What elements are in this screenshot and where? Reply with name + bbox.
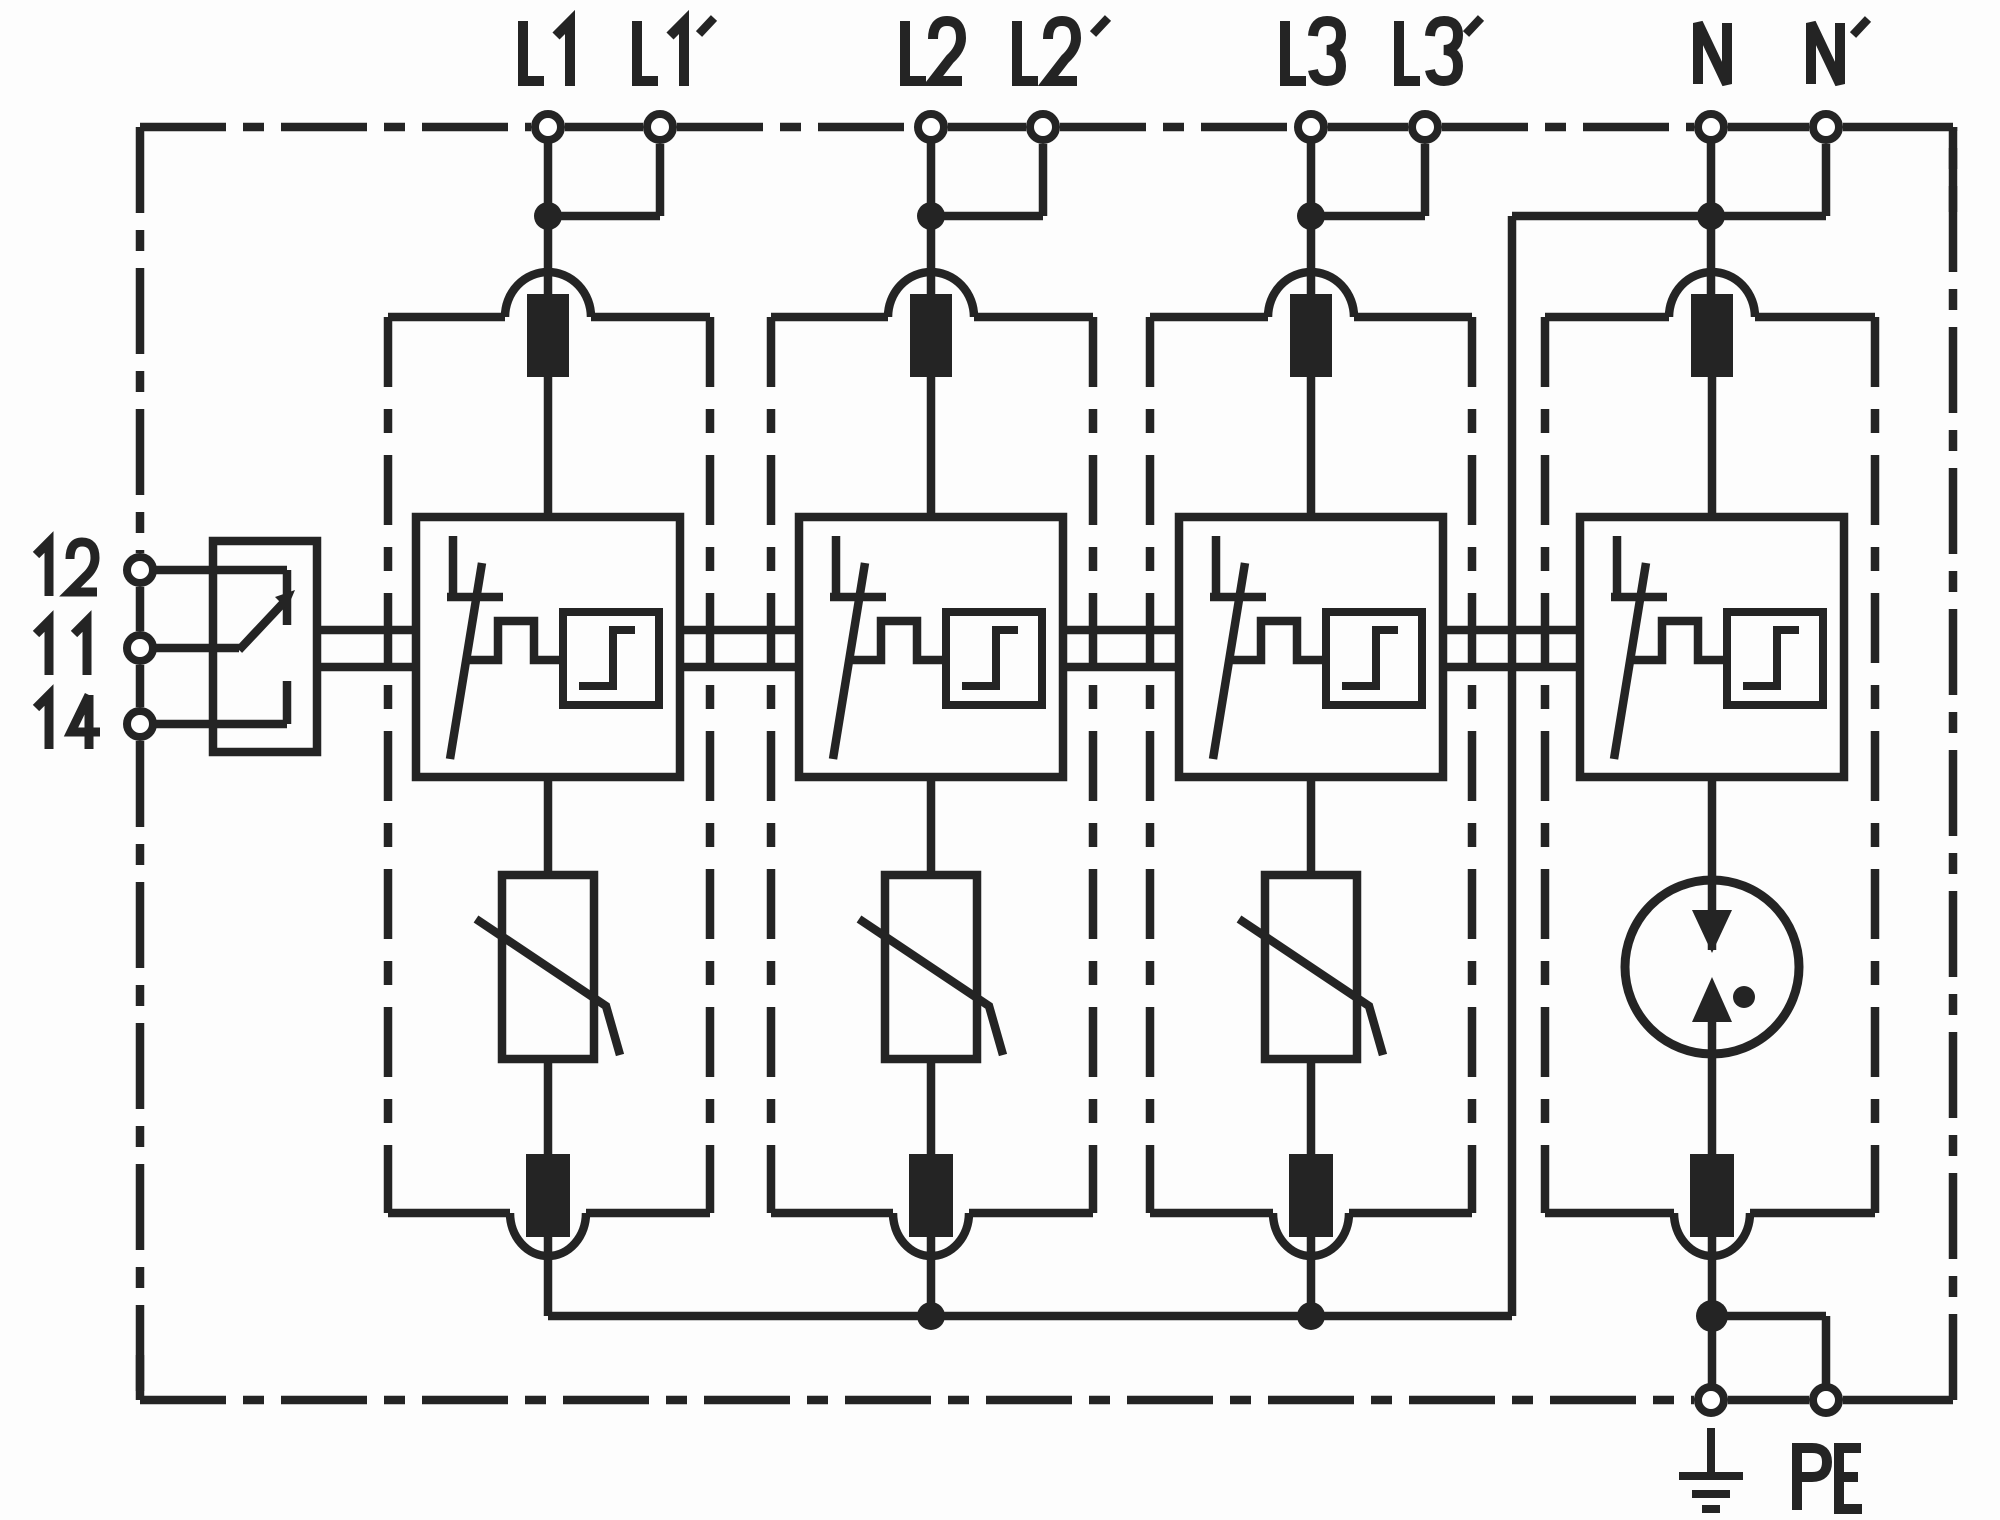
arrester F2 disconnect blade <box>833 563 865 759</box>
arrester F4 trigger pulse line <box>1629 621 1727 660</box>
ground symbol bar 2 <box>1692 1490 1730 1498</box>
module 1 bottom edge right segment <box>586 1209 710 1218</box>
module 3 boundary right dash-dot <box>1468 317 1477 1213</box>
wire L3' to junction node L3 <box>1311 212 1425 221</box>
wire terminal L1 down to junction <box>544 127 553 230</box>
junction dot node L3 <box>1297 202 1325 230</box>
wire terminal 12 to contact <box>140 566 287 575</box>
gas discharge tube G1 circle <box>1625 880 1799 1054</box>
label 11 first digit 1 <box>36 621 49 675</box>
wire varistor R2 to bottom contact <box>927 1059 936 1154</box>
arrester F4 trigger unit step symbol <box>1743 630 1799 686</box>
terminal L2 circle <box>918 114 944 140</box>
wire gas discharge tube to bottom contact <box>1708 1022 1717 1154</box>
module 2 bottom edge left segment <box>771 1209 893 1218</box>
terminal 11 circle <box>127 635 153 661</box>
wire module 2 bottom contact to common rail <box>927 1237 936 1316</box>
wire arrester F1 to varistor R1 <box>544 777 553 875</box>
gas discharge tube lower arrow <box>1692 977 1732 1022</box>
arrester F2 disconnect tick <box>830 593 886 602</box>
label 12 digit 1 <box>36 542 49 596</box>
terminal L1 circle <box>535 114 561 140</box>
wire arrester F4 to gas discharge tube <box>1708 777 1717 950</box>
module 2 top edge right segment <box>974 313 1093 322</box>
label L3' prime <box>1466 18 1481 34</box>
wire contact to arrester F2 <box>927 377 936 517</box>
wire ground terminal to PE terminal <box>1728 1396 1809 1405</box>
wire terminal L2 down to junction <box>927 127 936 230</box>
lower bus wire K1 box to arrester F1 <box>317 663 416 672</box>
contact 12 stub <box>283 570 292 625</box>
terminal PE circle <box>1813 1387 1839 1413</box>
label L3' digit 3 <box>1430 21 1458 81</box>
varistor R2 diagonal <box>859 919 1003 1055</box>
wire module 4 bottom contact to common rail <box>1708 1237 1717 1316</box>
common rail of varistor outputs <box>548 1312 1512 1321</box>
module 1 bottom plug-in contact blade (black) <box>526 1154 570 1237</box>
module 4 top plug-in contact blade (black) <box>1691 294 1733 377</box>
wire terminal 11 to contact common <box>140 644 239 653</box>
device enclosure border, bottom-left corner patch <box>136 1355 145 1400</box>
module 4 boundary right dash-dot <box>1871 317 1880 1213</box>
wire terminal N' down <box>1822 144 1831 216</box>
terminal ground circle <box>1698 1387 1724 1413</box>
wire module 3 bottom contact to common rail <box>1307 1237 1316 1316</box>
module 2 boundary left dash-dot <box>767 317 776 1213</box>
arrester F1 trigger unit step symbol <box>579 630 635 686</box>
upper bus wire arrester F3 to F4 <box>1443 626 1580 635</box>
module 2 bottom edge right segment <box>969 1209 1093 1218</box>
module 1 top plug-in contact blade (black) <box>527 294 569 377</box>
label L1' letter L <box>637 21 658 81</box>
wire arrester F2 to varistor R2 <box>927 777 936 875</box>
device enclosure border, top-left dash-dot segment <box>140 123 531 132</box>
module 3 top edge left segment <box>1150 313 1268 322</box>
module 2 bottom plug-in contact blade (black) <box>909 1154 953 1237</box>
varistor R3 body <box>1265 875 1357 1059</box>
arrester F2 electrode stub <box>832 536 841 598</box>
arrester F2 box <box>799 517 1063 777</box>
wire terminal L3 down to junction <box>1307 127 1316 230</box>
terminal 14 circle <box>127 711 153 737</box>
label L2 letter L <box>905 21 926 81</box>
arrester F3 disconnect tick <box>1210 593 1266 602</box>
module 2 plug-in contact dome <box>888 272 974 317</box>
switch blade K1 <box>239 600 286 650</box>
wire junction N to plug-in contact <box>1707 216 1716 305</box>
arrester F3 trigger unit box <box>1326 612 1422 705</box>
wire contact to arrester F3 <box>1307 377 1316 517</box>
terminal 12 circle <box>127 557 153 583</box>
riser wire rail to N node <box>1508 216 1517 1316</box>
wire gas tube output down to ground terminal <box>1708 1316 1717 1395</box>
module 1 bottom edge left segment <box>388 1209 510 1218</box>
wire N' to junction node N <box>1711 212 1826 221</box>
label L3 letter L <box>1285 21 1306 81</box>
wire L2 to L2' <box>948 123 1026 132</box>
label L2' letter L <box>1017 21 1038 81</box>
ground symbol bar 3 <box>1702 1505 1720 1513</box>
arrester F1 box <box>416 517 680 777</box>
module 1 top edge left segment <box>388 313 505 322</box>
wire riser to junction N <box>1512 212 1711 221</box>
remote signalling contact box K1 <box>213 541 317 752</box>
device enclosure border, top segment between L3' and N <box>1442 123 1694 132</box>
module 4 top edge left segment <box>1545 313 1669 322</box>
arrester F4 trigger unit box <box>1727 612 1823 705</box>
label N' prime <box>1853 19 1868 35</box>
label PE letter E <box>1839 1448 1862 1509</box>
module 4 bottom plug-in contact blade (black) <box>1690 1154 1734 1237</box>
arrester F4 disconnect tick <box>1611 593 1667 602</box>
arrester F3 trigger unit step symbol <box>1342 630 1398 686</box>
label 12 digit 2 <box>70 542 97 592</box>
arrester F4 disconnect blade <box>1614 563 1646 759</box>
varistor R2 body <box>885 875 977 1059</box>
wire L1 to L1' <box>565 123 643 132</box>
module 2 boundary right dash-dot <box>1089 317 1098 1213</box>
device enclosure border, bottom dash-dot segment <box>140 1396 1694 1405</box>
device enclosure border, left side upper dash-dot segment <box>136 127 145 553</box>
wire down to PE terminal <box>1822 1316 1831 1395</box>
upper bus wire K1 box to arrester F1 <box>317 626 416 635</box>
module 2 top edge left segment <box>771 313 888 322</box>
module 4 plug-in contact dome <box>1669 272 1755 317</box>
device enclosure border, top segment between L1' and L2 <box>677 123 914 132</box>
wire gas tube output node to PE' drop <box>1712 1312 1826 1321</box>
arrester F4 electrode stub <box>1613 536 1622 598</box>
label N <box>1698 23 1727 84</box>
module 1 top edge right segment <box>591 313 710 322</box>
module 4 bottom edge right segment <box>1750 1209 1875 1218</box>
label L1 letter L <box>523 21 544 81</box>
varistor R3 diagonal <box>1239 919 1383 1055</box>
wire terminal N down to junction <box>1707 127 1716 230</box>
arrester F1 trigger unit box <box>563 612 659 705</box>
terminal N' circle <box>1813 114 1839 140</box>
wire module 1 bottom contact to common rail <box>544 1237 553 1316</box>
arrester F2 trigger pulse line <box>848 621 946 660</box>
label L1 digit 1 <box>556 22 570 86</box>
device enclosure border, top segment between L2' and L3 <box>1060 123 1294 132</box>
label L2' digit 2 <box>1048 21 1077 81</box>
label L3' letter L <box>1399 21 1420 81</box>
label L3 digit 3 <box>1313 21 1341 81</box>
arrester F1 disconnect tick <box>447 593 503 602</box>
wire N to N' <box>1728 123 1809 132</box>
module 2 bottom plug-in contact dome <box>893 1213 969 1256</box>
terminal L3' circle <box>1412 114 1438 140</box>
module 3 boundary left dash-dot <box>1146 317 1155 1213</box>
terminal L2' circle <box>1030 114 1056 140</box>
device enclosure border, right side dash-dot <box>1949 127 1958 1400</box>
arrester F3 box <box>1179 517 1443 777</box>
terminal L3 circle <box>1298 114 1324 140</box>
module 1 boundary left dash-dot <box>384 317 393 1213</box>
arrester F4 box <box>1580 517 1844 777</box>
wire L1' to junction node L1 <box>548 212 660 221</box>
wire arrester F3 to varistor R3 <box>1307 777 1316 875</box>
module 3 bottom edge right segment <box>1349 1209 1472 1218</box>
module 3 top edge right segment <box>1354 313 1472 322</box>
arrester F1 electrode stub <box>449 536 458 598</box>
module 1 boundary right dash-dot <box>706 317 715 1213</box>
wire L3 to L3' <box>1328 123 1408 132</box>
wire terminal L2' down <box>1039 144 1048 216</box>
junction dot gas tube output <box>1696 1300 1728 1332</box>
module 2 top plug-in contact blade (black) <box>910 294 952 377</box>
arrester F1 trigger pulse line <box>465 621 563 660</box>
arrester F1 disconnect blade <box>450 563 482 759</box>
label L1' prime <box>699 18 714 34</box>
module 3 bottom edge left segment <box>1150 1209 1273 1218</box>
module 3 plug-in contact dome <box>1268 272 1354 317</box>
wire varistor R3 to bottom contact <box>1307 1059 1316 1154</box>
arrester F3 disconnect blade <box>1213 563 1245 759</box>
arrester F3 trigger pulse line <box>1228 621 1326 660</box>
wire junction L3 to plug-in contact <box>1307 216 1316 305</box>
module 4 boundary left dash-dot <box>1541 317 1550 1213</box>
module 3 bottom plug-in contact dome <box>1273 1213 1349 1256</box>
junction dot node L2 <box>917 202 945 230</box>
terminal N circle <box>1698 114 1724 140</box>
lower bus wire arrester F1 to F2 <box>680 663 799 672</box>
wire terminal 14 to contact <box>140 720 287 729</box>
arrester F2 trigger unit box <box>946 612 1042 705</box>
gas discharge tube upper arrow <box>1692 910 1732 953</box>
upper bus wire arrester F2 to F3 <box>1063 626 1179 635</box>
module 1 plug-in contact dome <box>505 272 591 317</box>
device enclosure border, left side lower dash-dot segment <box>136 741 145 1400</box>
arrester F2 trigger unit step symbol <box>962 630 1018 686</box>
upper bus wire arrester F1 to F2 <box>680 626 799 635</box>
label 14 digit 4 <box>71 695 100 749</box>
module 4 top edge right segment <box>1755 313 1875 322</box>
ground symbol stem <box>1707 1428 1715 1474</box>
label L2' prime <box>1093 18 1108 34</box>
junction dot node L1 <box>534 202 562 230</box>
ground symbol bar 1 <box>1679 1472 1743 1480</box>
gas discharge tube gas-filled dot <box>1733 986 1755 1008</box>
label L1' digit 1 <box>670 22 684 86</box>
wire contact to arrester F4 <box>1708 377 1717 517</box>
junction dot node N <box>1697 202 1725 230</box>
varistor R1 diagonal <box>476 919 620 1055</box>
module 4 bottom plug-in contact dome <box>1674 1213 1750 1256</box>
module 4 bottom edge left segment <box>1545 1209 1674 1218</box>
lower bus wire arrester F3 to F4 <box>1443 663 1580 672</box>
label L2 digit 2 <box>933 21 962 81</box>
wire contact to arrester F1 <box>544 377 553 517</box>
wire L2' to junction node L2 <box>931 212 1043 221</box>
terminal L1' circle <box>647 114 673 140</box>
arrester F3 electrode stub <box>1212 536 1221 598</box>
wire terminal 11 to terminal 14 <box>136 665 145 707</box>
device enclosure border, right side top corner patch <box>1949 127 1958 212</box>
switch blade arrowhead <box>275 590 295 609</box>
module 1 bottom plug-in contact dome <box>510 1213 586 1256</box>
label PE letter P <box>1797 1448 1827 1510</box>
wire junction L1 to plug-in contact <box>544 216 553 305</box>
junction dot rail/module3 <box>1297 1302 1325 1330</box>
contact 14 stub <box>283 681 292 724</box>
wire terminal L1' down <box>656 144 665 216</box>
device enclosure border, top-right solid segment <box>1843 123 1953 132</box>
label 11 second digit 1 <box>74 621 87 675</box>
varistor R1 body <box>502 875 594 1059</box>
device enclosure border, bottom-right solid segment <box>1843 1396 1953 1405</box>
label 14 digit 1 <box>36 695 49 749</box>
wire terminal 12 to terminal 11 <box>136 587 145 631</box>
wire junction L2 to plug-in contact <box>927 216 936 305</box>
module 3 bottom plug-in contact blade (black) <box>1289 1154 1333 1237</box>
lower bus wire arrester F2 to F3 <box>1063 663 1179 672</box>
module 3 top plug-in contact blade (black) <box>1290 294 1332 377</box>
label N' letter N <box>1811 23 1840 84</box>
wire varistor R1 to bottom contact <box>544 1059 553 1154</box>
junction dot rail/module2 <box>917 1302 945 1330</box>
wire terminal L3' down <box>1421 144 1430 216</box>
